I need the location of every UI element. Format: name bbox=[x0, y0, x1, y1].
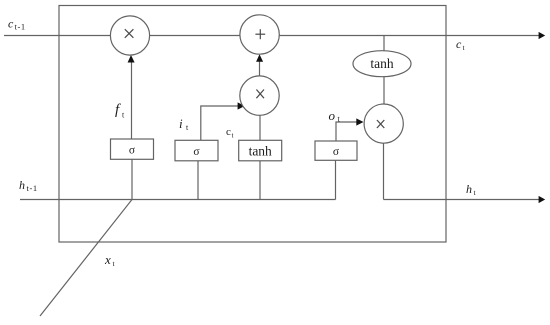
symbol x in mult2 bbox=[256, 90, 264, 99]
svg-text:t: t bbox=[122, 111, 125, 120]
wire mult2 up to add with arrowhead bbox=[259, 60, 261, 76]
wire forget arrow sigma1 up to mult1 bbox=[131, 60, 133, 139]
wire sigma3 down to h-line bbox=[335, 160, 337, 200]
arrowhead mult2 into add bbox=[256, 54, 263, 62]
gate sigma1 (forget gate box) bbox=[111, 139, 154, 159]
wire x_t diagonal input bbox=[40, 200, 132, 317]
symbol + in add bbox=[255, 29, 265, 39]
svg-text:σ: σ bbox=[193, 146, 200, 158]
svg-text:tanh: tanh bbox=[370, 56, 393, 71]
svg-text:i: i bbox=[179, 116, 183, 131]
svg-text:t: t bbox=[186, 123, 189, 132]
wire output-gate elbow sigma3 up and right to mult3 bbox=[336, 122, 358, 141]
arrowhead input-gate into mult2 bbox=[238, 102, 245, 109]
arrowhead output-gate into mult3 bbox=[356, 118, 363, 125]
svg-text:σ: σ bbox=[333, 146, 340, 158]
cell boundary box bbox=[59, 6, 446, 243]
svg-text:tanh: tanh bbox=[249, 143, 272, 158]
svg-text:t: t bbox=[474, 188, 477, 197]
wire mult3 down to h-line bbox=[383, 143, 385, 199]
arrowhead h_t output bbox=[539, 196, 546, 203]
wire h-line right (h_t output) bbox=[384, 199, 541, 201]
svg-text:t-1: t-1 bbox=[27, 183, 38, 193]
wire c-line (cell state, y=35.5) bbox=[4, 35, 540, 37]
node add (cell state sum) bbox=[240, 15, 279, 54]
wire sigma1 down to h-line bbox=[131, 159, 133, 199]
wire candidate tanh-box up to mult2 bbox=[259, 116, 261, 141]
wire c-line down to tanh ellipse bbox=[383, 36, 385, 51]
wire sigma2 down to h-line bbox=[197, 161, 199, 200]
node mult1 (forget gate multiply) bbox=[110, 16, 149, 55]
wire input-gate elbow sigma2 up and right to mult2 bbox=[201, 106, 239, 140]
svg-text:o: o bbox=[329, 108, 336, 123]
symbol x in mult1 bbox=[125, 29, 134, 38]
svg-text:σ: σ bbox=[129, 145, 136, 157]
svg-text:h: h bbox=[19, 178, 25, 192]
svg-text:c: c bbox=[456, 37, 462, 51]
gate sigma3 (output gate box) bbox=[315, 141, 357, 160]
node mult2 (input x candidate multiply) bbox=[240, 76, 279, 115]
svg-text:f: f bbox=[115, 102, 121, 118]
svg-text:t: t bbox=[113, 259, 116, 268]
svg-text:t: t bbox=[463, 43, 466, 52]
svg-text:h: h bbox=[466, 182, 472, 196]
arrowhead c_t output bbox=[539, 32, 546, 39]
wire h-line left (h_{t-1}, y=199.5) bbox=[20, 199, 336, 201]
svg-text:c: c bbox=[8, 17, 14, 31]
svg-text:c: c bbox=[226, 126, 231, 138]
gate sigma2 (input gate box) bbox=[175, 140, 218, 161]
symbol x in mult3 bbox=[377, 120, 384, 128]
node tanh ellipse (output activation) bbox=[353, 51, 411, 77]
node mult3 (output gate multiply) bbox=[364, 104, 403, 143]
svg-text:t-1: t-1 bbox=[15, 22, 26, 32]
wire tanh-box down to h-line bbox=[259, 161, 261, 200]
svg-text:x: x bbox=[104, 252, 111, 267]
arrowhead forget into mult1 bbox=[128, 55, 135, 63]
gate tanh box (candidate) bbox=[239, 140, 282, 161]
svg-text:t: t bbox=[232, 132, 234, 140]
wire tanh ellipse down to mult3 bbox=[383, 77, 385, 104]
